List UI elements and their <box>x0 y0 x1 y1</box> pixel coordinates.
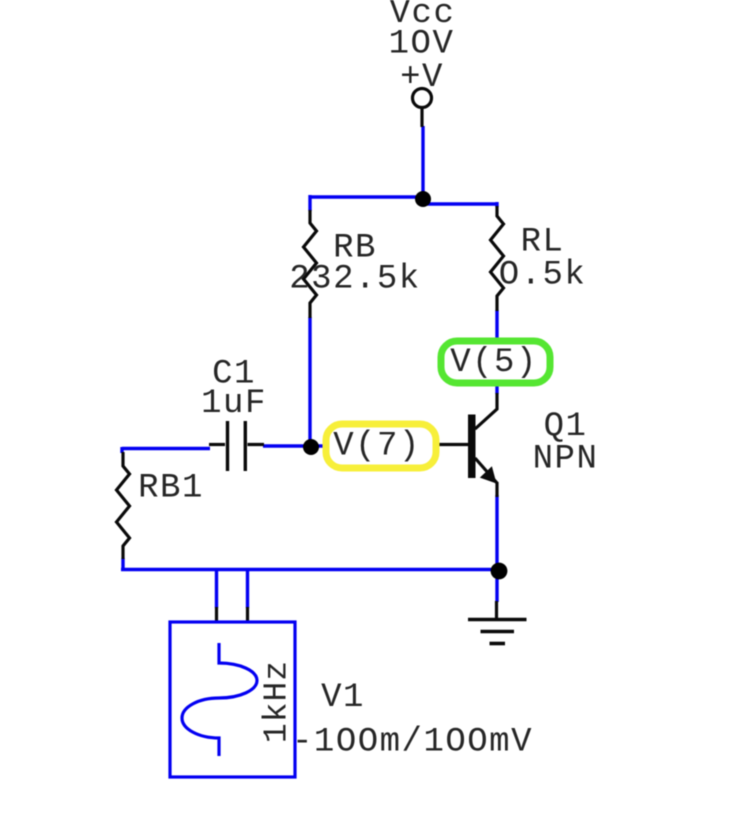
svg-text:+V: +V <box>400 59 444 97</box>
svg-text:V(5): V(5) <box>450 344 538 382</box>
svg-text:O.5k: O.5k <box>499 257 587 295</box>
svg-text:-1OOm/1OOmV: -1OOm/1OOmV <box>292 724 533 762</box>
svg-text:232.5k: 232.5k <box>289 261 420 299</box>
svg-text:1OV: 1OV <box>389 26 455 64</box>
svg-text:1kHz: 1kHz <box>259 660 296 743</box>
svg-text:V1: V1 <box>321 679 365 717</box>
svg-text:1uF: 1uF <box>201 385 267 423</box>
svg-text:RB1: RB1 <box>138 470 204 508</box>
svg-text:V(7): V(7) <box>333 428 421 466</box>
svg-text:NPN: NPN <box>533 441 599 479</box>
